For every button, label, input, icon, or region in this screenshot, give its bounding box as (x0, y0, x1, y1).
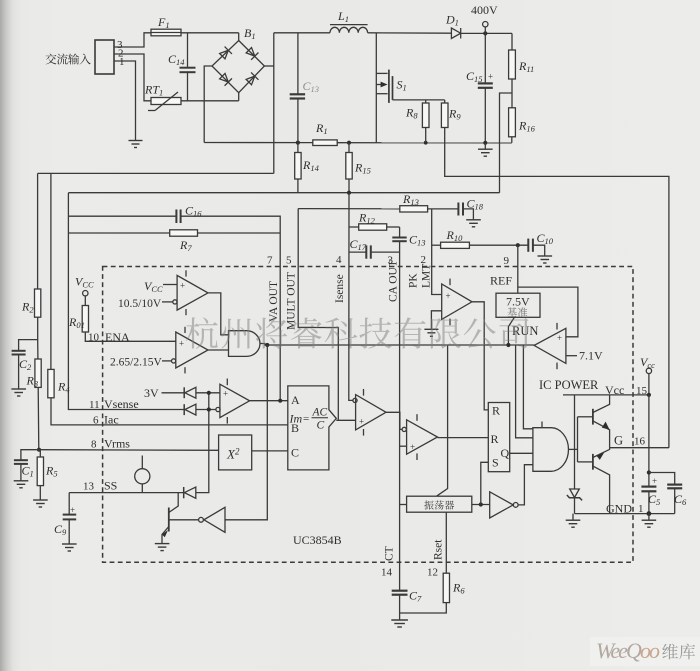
wire Vrms to X2 (39, 449, 219, 452)
node pin9 REF (516, 243, 520, 247)
capacitor C6 (667, 485, 682, 489)
capacitor C17 (349, 251, 366, 253)
svg-text:+: + (179, 339, 184, 349)
AND gate U12 (533, 428, 569, 472)
svg-text:A: A (291, 393, 300, 407)
wire mult out to CA (336, 419, 355, 421)
svg-text:R1: R1 (315, 121, 328, 136)
PK limit comparator U8 (442, 284, 472, 319)
svg-text:C15: C15 (466, 69, 483, 84)
svg-text:VCC: VCC (75, 275, 94, 290)
svg-text:C17: C17 (350, 237, 367, 252)
wire CA out to PWM (386, 412, 402, 429)
transistor Q3 totem bottom (592, 454, 594, 470)
op-amp U4 voltage amp (220, 384, 250, 417)
svg-text:8: 8 (91, 439, 97, 451)
wire RUN to AND2 inputs (516, 345, 533, 438)
wire VAfb chain (68, 193, 184, 410)
wire osc to S input (481, 462, 489, 504)
resistor R6 (443, 573, 449, 602)
wire D1 to node (461, 32, 512, 34)
svg-text:4: 4 (336, 254, 342, 266)
wire comp2 out to AND1 (208, 349, 229, 351)
svg-text:10.5/10V: 10.5/10V (118, 298, 162, 310)
fuse F1 (151, 29, 181, 36)
svg-text:UC3854B: UC3854B (293, 533, 342, 547)
wire L1 to D1 (368, 32, 452, 34)
svg-text:WeeQoo: WeeQoo (596, 638, 660, 663)
text weeqoo cn (662, 644, 695, 660)
resistor R1 (313, 140, 337, 146)
resistor R11 (511, 33, 513, 50)
wire AND1 to inverter (225, 345, 267, 520)
resistor R8 (425, 100, 427, 103)
wire bridge bottom (238, 93, 240, 101)
svg-text:C18: C18 (467, 197, 484, 212)
wire pin2 PKLMT chain (432, 209, 442, 295)
svg-text:+: + (410, 442, 415, 452)
text 7.5V ref note (507, 307, 527, 316)
svg-text:LMT: LMT (421, 264, 433, 288)
wire C16 branch (68, 215, 176, 217)
svg-text:Vcc: Vcc (640, 355, 655, 370)
svg-text:C7: C7 (409, 589, 422, 604)
node GND (647, 511, 652, 516)
wire gate to R8 R9 (393, 99, 445, 101)
svg-text:7: 7 (267, 255, 273, 267)
svg-text:R6: R6 (452, 581, 465, 596)
capacitor C5 (641, 487, 656, 492)
capacitor C18 (458, 203, 463, 216)
wire pin2 to RT1 (114, 54, 151, 101)
wire bridge plus (264, 65, 273, 67)
svg-text:+: + (70, 505, 75, 515)
svg-text:R8: R8 (405, 106, 418, 121)
svg-text:C2: C2 (19, 357, 32, 372)
svg-text:MULT OUT: MULT OUT (286, 272, 298, 330)
current source I1 (135, 469, 150, 484)
node bridge plus vertical (273, 33, 275, 174)
svg-text:12: 12 (427, 567, 438, 579)
svg-text:11: 11 (89, 399, 100, 411)
capacitor C13 (297, 33, 299, 94)
svg-text:Vrms: Vrms (104, 437, 130, 451)
resistor R14 (297, 143, 299, 153)
node RUN inverter tap (265, 343, 269, 347)
capacitor C15 (484, 33, 486, 83)
ground (C18) (466, 220, 481, 227)
wire left Vrms chain (37, 173, 39, 289)
node rail C15 (483, 141, 487, 145)
svg-text:7.1V: 7.1V (579, 349, 603, 363)
resistor R2 (35, 289, 41, 317)
wire RUN to oscillator (437, 345, 448, 496)
RS flip-flop U10 (488, 403, 509, 472)
node Vrms (37, 448, 41, 452)
svg-text:2.65/2.15V: 2.65/2.15V (110, 357, 162, 369)
bridge diode top-right (245, 47, 258, 60)
capacitor C7 (392, 591, 408, 595)
svg-text:R11: R11 (518, 59, 534, 74)
svg-text:+: + (557, 333, 562, 343)
svg-text:R9: R9 (448, 107, 461, 122)
node 400V (483, 31, 487, 35)
svg-text:R10: R10 (446, 228, 464, 243)
svg-text:7.5V: 7.5V (506, 295, 530, 309)
wire inverter2 to AND2 (518, 465, 533, 505)
svg-text:Vsense: Vsense (104, 397, 139, 411)
svg-text:C6: C6 (674, 492, 687, 507)
capacitor C10 (528, 239, 533, 252)
ground (CT) (391, 620, 408, 627)
svg-text:400V: 400V (471, 3, 498, 17)
wire RUN line (260, 344, 534, 346)
ground (IC gnd) (648, 514, 650, 520)
inverter U11 (490, 492, 514, 518)
svg-text:+: + (652, 476, 657, 486)
svg-text:Iac: Iac (104, 413, 119, 427)
svg-text:+: + (446, 291, 451, 301)
wire Vsense net line (68, 192, 499, 194)
resistor R01 (82, 306, 88, 333)
svg-text:R2: R2 (21, 300, 34, 315)
wire Vcc pin15 line (563, 394, 649, 396)
MOSFET S1 drain-source line (375, 33, 377, 143)
ground (PK comp) (424, 329, 438, 336)
svg-text:3V: 3V (144, 386, 159, 400)
svg-text:6: 6 (93, 415, 99, 427)
svg-text:C14: C14 (168, 52, 185, 67)
bridge rectifier B1 (212, 41, 264, 93)
wire GND line (575, 513, 675, 515)
capacitor C9 soft start (63, 515, 76, 520)
wire inverter out to Q1 base (169, 519, 198, 521)
wire Iac chain (50, 173, 52, 369)
wire R9 to gate-drive line (445, 128, 669, 448)
wire SS line (69, 492, 184, 494)
wire VA out to A (250, 400, 288, 402)
text oscillator (424, 500, 454, 509)
svg-text:1: 1 (119, 56, 125, 68)
resistor R12 (349, 226, 359, 228)
wire Vcc down to C5 (648, 395, 650, 486)
svg-text:R: R (491, 432, 499, 446)
wire 7.5V to RUN line (508, 317, 514, 345)
watermark hangzhou text (186, 317, 528, 349)
wire SS cap branch (68, 493, 70, 515)
resistor R3 (35, 359, 41, 387)
svg-text:CT: CT (384, 546, 396, 561)
svg-text:=: = (303, 413, 309, 425)
svg-text:C1: C1 (22, 464, 34, 479)
wire Isense pin4 (349, 193, 353, 401)
ground (C10) (538, 256, 553, 263)
svg-text:C: C (317, 420, 325, 432)
svg-text:R12: R12 (358, 211, 376, 226)
resistor R5 (39, 450, 41, 457)
svg-text:1: 1 (638, 503, 644, 515)
ground (C9) (62, 544, 77, 551)
svg-text:+: + (359, 417, 364, 427)
ground (AC input) (129, 141, 143, 148)
comparator U9 7.1V (534, 328, 566, 363)
svg-text:F1: F1 (157, 15, 170, 30)
node osc S tap (479, 502, 483, 506)
svg-text:14: 14 (381, 567, 393, 579)
svg-text:R14: R14 (302, 158, 320, 173)
svg-text:VCC: VCC (144, 279, 163, 294)
wire PK out to RS R (472, 302, 488, 410)
wire Q to AND2 (510, 452, 533, 454)
AND gate U2 (229, 331, 260, 357)
wire RT1 to bridge bottom (181, 100, 239, 102)
wire top rail right section (274, 32, 330, 34)
IC dashed border UC3854B (103, 267, 633, 563)
wire MULT line pin5 to R13 (298, 208, 400, 210)
node clamp (207, 391, 211, 395)
svg-text:C9: C9 (54, 522, 67, 537)
svg-text:R5: R5 (45, 464, 58, 479)
wire bridge minus to rail (204, 66, 212, 143)
wire bottom return rail (204, 142, 313, 144)
svg-text:16: 16 (634, 436, 646, 448)
terminal Vcc left (83, 291, 88, 296)
svg-text:R15: R15 (354, 161, 371, 176)
svg-text:Isense: Isense (334, 274, 346, 303)
diode D2 soft start (183, 487, 185, 498)
wire AC sense line (38, 172, 274, 174)
transistor Q1 (168, 508, 170, 532)
resistor R13 (400, 206, 428, 212)
svg-text:GND: GND (606, 502, 632, 516)
MOSFET S1 body (376, 72, 387, 74)
capacitor C2 (12, 351, 26, 355)
thermistor RT1 (151, 98, 181, 105)
transistor Q2 totem top (592, 409, 594, 425)
wire C6 branch (649, 473, 675, 485)
svg-text:C13: C13 (409, 233, 426, 248)
node Vsense R15 (347, 191, 351, 195)
wire PK minus to gnd (431, 311, 441, 329)
svg-text:R: R (492, 404, 500, 418)
node rail C13 (296, 141, 300, 145)
watermark 2 WeeQoo (590, 637, 700, 666)
wire pin3 CAOUT chain (399, 227, 401, 237)
svg-text:C: C (291, 446, 299, 460)
squarer X2 (219, 435, 252, 470)
node C5 tap (647, 470, 651, 474)
svg-text:S1: S1 (397, 78, 407, 93)
svg-text:5: 5 (286, 255, 292, 267)
wire CT to oscillator (400, 504, 407, 506)
wire AND2 to totem bases (569, 448, 578, 450)
capacitor C16 (176, 210, 180, 224)
ground (C2) (11, 389, 26, 396)
comparator U1b ENA (176, 332, 208, 368)
svg-text:SS: SS (104, 479, 117, 493)
svg-text:C16: C16 (185, 204, 202, 219)
bridge diode top-left (219, 47, 232, 60)
wire PWM out to RS (438, 437, 489, 439)
ground (C1) (14, 481, 29, 488)
svg-text:C10: C10 (537, 231, 554, 246)
ground (Q1) (155, 544, 170, 551)
svg-text:X2: X2 (226, 447, 240, 462)
node rail R8 (424, 141, 428, 145)
wire PWM plus input (400, 445, 407, 447)
bridge diode bottom-right (245, 72, 258, 85)
PWM comparator U7 (407, 420, 438, 454)
wire divider tap to Vsense net (500, 93, 513, 193)
svg-text:RT1: RT1 (144, 83, 163, 98)
wire to C1 (21, 450, 39, 460)
resistor R16 (509, 108, 516, 137)
svg-text:Rset: Rset (433, 539, 445, 560)
svg-text:10: 10 (88, 332, 100, 344)
ground (R5) (33, 500, 48, 507)
wire R7 branch (68, 232, 169, 234)
wire pin1 to ground (114, 61, 136, 140)
svg-text:R16: R16 (518, 119, 536, 134)
wire osc out (472, 504, 490, 506)
svg-text:VA OUT: VA OUT (268, 281, 280, 322)
wire pin3 to fuse (114, 33, 151, 47)
svg-text:IC POWER: IC POWER (539, 378, 599, 392)
inverter U3 (204, 507, 225, 532)
svg-text:+: + (488, 72, 493, 82)
svg-text:L1: L1 (337, 9, 349, 24)
svg-text:PK: PK (408, 273, 420, 288)
svg-text:G: G (614, 434, 623, 448)
zener D5 (570, 489, 580, 498)
7.5V reference box (496, 293, 540, 317)
capacitor C14 (187, 33, 189, 68)
ground (zener) (572, 514, 574, 520)
svg-text:Vcc: Vcc (605, 383, 624, 397)
resistor R9 (444, 100, 446, 103)
svg-text:REF: REF (490, 274, 512, 288)
node rail R15 (347, 141, 351, 145)
resistor R10 (441, 242, 470, 248)
svg-text:Im: Im (289, 412, 303, 426)
wire fuse to rail (181, 32, 239, 34)
wire Rset chain (445, 512, 447, 573)
bridge diode bottom-left (219, 72, 232, 85)
svg-text:+: + (223, 389, 228, 399)
wire X2 to C input (252, 450, 288, 452)
svg-text:CA OUT: CA OUT (388, 260, 400, 302)
svg-text:R7: R7 (179, 238, 192, 253)
wire Vcc left leg (574, 395, 576, 489)
current amp U6 (356, 395, 386, 430)
svg-text:D1: D1 (445, 13, 459, 28)
resistor R7 (170, 230, 198, 236)
svg-text:Q: Q (501, 446, 510, 460)
svg-text:15: 15 (636, 385, 648, 397)
wire REF to 7.1V comp (518, 287, 578, 337)
resistor R15 (348, 143, 350, 153)
wire C2 branch (19, 340, 38, 351)
oscillator box (407, 496, 472, 512)
comparator U1a UVLO (177, 275, 208, 310)
text AC input label (45, 53, 90, 64)
terminal 400V (483, 22, 488, 27)
svg-text:+: + (180, 281, 185, 291)
diode D1 (451, 28, 460, 39)
wire comp1 out to AND1 (208, 293, 229, 335)
wire pin9 to REF box (517, 245, 519, 293)
inductor L1 (330, 27, 368, 33)
resistor R4 (48, 369, 54, 397)
capacitor C1 (14, 460, 28, 464)
wire MULTOUT pin5 (298, 209, 338, 420)
wire R10 line (432, 244, 441, 246)
svg-text:ENA: ENA (105, 330, 130, 344)
svg-text:C5: C5 (648, 492, 660, 507)
node VAOUT pin7 (278, 399, 282, 403)
diode D4 clamp bottom (183, 404, 185, 415)
svg-text:S: S (492, 456, 499, 470)
svg-text:AC: AC (312, 407, 328, 419)
diode D3 3V clamp top (162, 392, 185, 394)
connector J1 AC input (95, 40, 114, 74)
capacitor C13b (392, 238, 406, 242)
terminal Vcc right (646, 368, 651, 373)
ground (output) (484, 143, 486, 149)
multiplier U5 (288, 386, 337, 470)
svg-text:B1: B1 (244, 26, 256, 41)
svg-text:R13: R13 (402, 192, 419, 207)
svg-text:C13: C13 (303, 79, 320, 94)
svg-text:13: 13 (83, 481, 95, 493)
svg-text:9: 9 (504, 255, 510, 267)
wire G pin16 line (610, 447, 669, 449)
